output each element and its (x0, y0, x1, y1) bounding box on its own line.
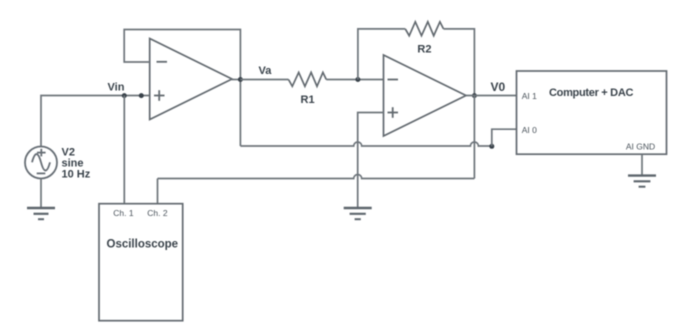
op-amp U1 (150, 39, 232, 120)
op-amp U2 (384, 55, 467, 136)
wire AI GND to ground (641, 154, 643, 175)
svg-text:AI 1: AI 1 (522, 91, 537, 101)
wire U1 feedback loop (output to - input) (124, 30, 240, 147)
node U1 output dot (238, 77, 243, 82)
ground right (628, 176, 656, 187)
wire R2 right down to U2 output (444, 29, 475, 96)
wire R2 left branch up and top (358, 29, 405, 80)
svg-text:Vin: Vin (108, 82, 125, 94)
wire AI 0 stub (492, 129, 517, 146)
wire U1 apex to output node (232, 79, 241, 81)
svg-text:10 Hz: 10 Hz (62, 169, 91, 181)
resistor R1 (289, 72, 327, 86)
wire V0 down to Ch. 2 rail (vertical) (473, 96, 475, 179)
ground middle (344, 208, 372, 219)
label V2 sine 10 Hz (62, 147, 91, 181)
svg-text:Oscilloscope: Oscilloscope (107, 239, 179, 251)
svg-text:Computer + DAC: Computer + DAC (549, 87, 633, 99)
node U2 output dot (472, 93, 477, 98)
wire U2 + input to ground rail (358, 113, 384, 209)
node R2 tap dot (355, 77, 360, 82)
wire V2 top to Vin to op-amp U1 + input (41, 96, 150, 147)
wire R1 to U2 - input (326, 79, 383, 81)
wire V2 bottom to ground (40, 178, 42, 208)
svg-text:AI GND: AI GND (626, 142, 655, 152)
wire V0 rail to oscilloscope Ch. 2 (horizontal with hop) (158, 175, 475, 179)
svg-text:Va: Va (259, 65, 273, 77)
node Vin junction dot (122, 93, 127, 98)
wire Vin down to oscilloscope Ch. 1 (123, 96, 125, 204)
node pin dot at U1 + input (139, 93, 144, 98)
wire Va node to R1 (240, 79, 288, 81)
svg-text:V0: V0 (491, 80, 506, 94)
svg-text:Ch. 1: Ch. 1 (113, 208, 134, 218)
oscilloscope box (99, 204, 183, 321)
wire Ch. 2 drop into oscilloscope (157, 179, 159, 204)
svg-text:R1: R1 (301, 94, 315, 106)
svg-text:R2: R2 (417, 44, 431, 56)
computer + DAC box (517, 71, 667, 154)
ground under V2 (27, 208, 55, 219)
svg-text:AI 0: AI 0 (522, 125, 537, 135)
voltage source V2 (25, 147, 57, 179)
node AI 0 junction dot (489, 144, 494, 149)
wire Va net to AI 0 (horizontal with hops) (240, 142, 491, 146)
svg-text:Ch. 2: Ch. 2 (147, 208, 168, 218)
resistor R2 (405, 22, 443, 36)
wire U2 output to computer AI 1 (466, 95, 517, 97)
